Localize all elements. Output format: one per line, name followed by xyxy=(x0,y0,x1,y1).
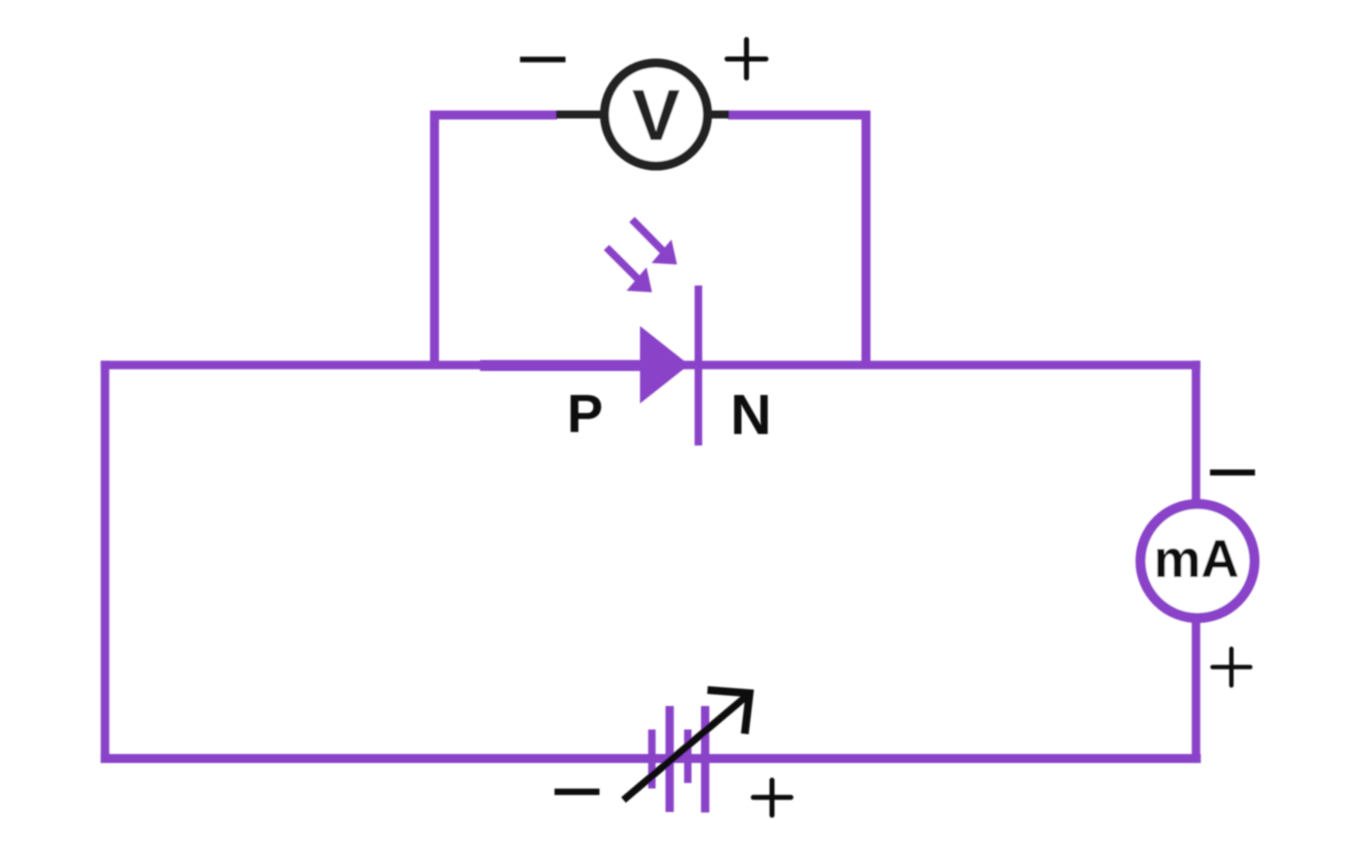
wire: voltmeter left black stub xyxy=(556,111,610,119)
wire: voltmeter branch top horizontal left segment xyxy=(430,111,557,120)
battery B1: plate 2 tall xyxy=(666,706,674,812)
battery B1: plate 4 tall xyxy=(701,706,709,813)
svg-text:mA: mA xyxy=(1154,530,1239,589)
photodiode D1: anode triangle xyxy=(640,326,689,404)
photodiode D1: cathode bar xyxy=(695,286,703,446)
svg-text:V: V xyxy=(632,76,680,156)
svg-text:N: N xyxy=(730,383,771,447)
battery B1: plate 1 short xyxy=(648,730,655,789)
wire: main top horizontal xyxy=(101,361,1201,370)
label: battery minus xyxy=(555,789,600,795)
wire: voltmeter right black stub xyxy=(702,111,729,119)
label: voltmeter plus xyxy=(727,40,766,79)
voltmeter V xyxy=(605,63,708,166)
label: voltmeter minus xyxy=(520,57,566,63)
wire: voltmeter branch top horizontal right segment xyxy=(728,111,871,120)
label: mA plus xyxy=(1213,649,1251,686)
milliammeter mA xyxy=(1141,504,1255,618)
label: battery plus xyxy=(753,780,791,815)
wire: left vertical xyxy=(101,361,110,763)
photodiode D1: light arrow 2 (lower) xyxy=(607,248,653,293)
battery B1: variable arrow head xyxy=(708,690,750,734)
wire: overlap segment left of diode xyxy=(480,360,640,371)
wire: voltmeter branch left vertical xyxy=(430,111,439,370)
svg-text:P: P xyxy=(567,384,603,444)
wire: voltmeter branch right vertical xyxy=(862,111,871,370)
label: mA minus xyxy=(1210,470,1255,476)
battery B1: variable arrow shaft xyxy=(624,697,747,801)
wire: right vertical xyxy=(1192,361,1201,763)
battery B1: plate 3 short xyxy=(684,730,691,784)
photodiode D1: light arrow 1 (upper) xyxy=(632,220,677,265)
wire: bottom horizontal xyxy=(101,754,1201,763)
